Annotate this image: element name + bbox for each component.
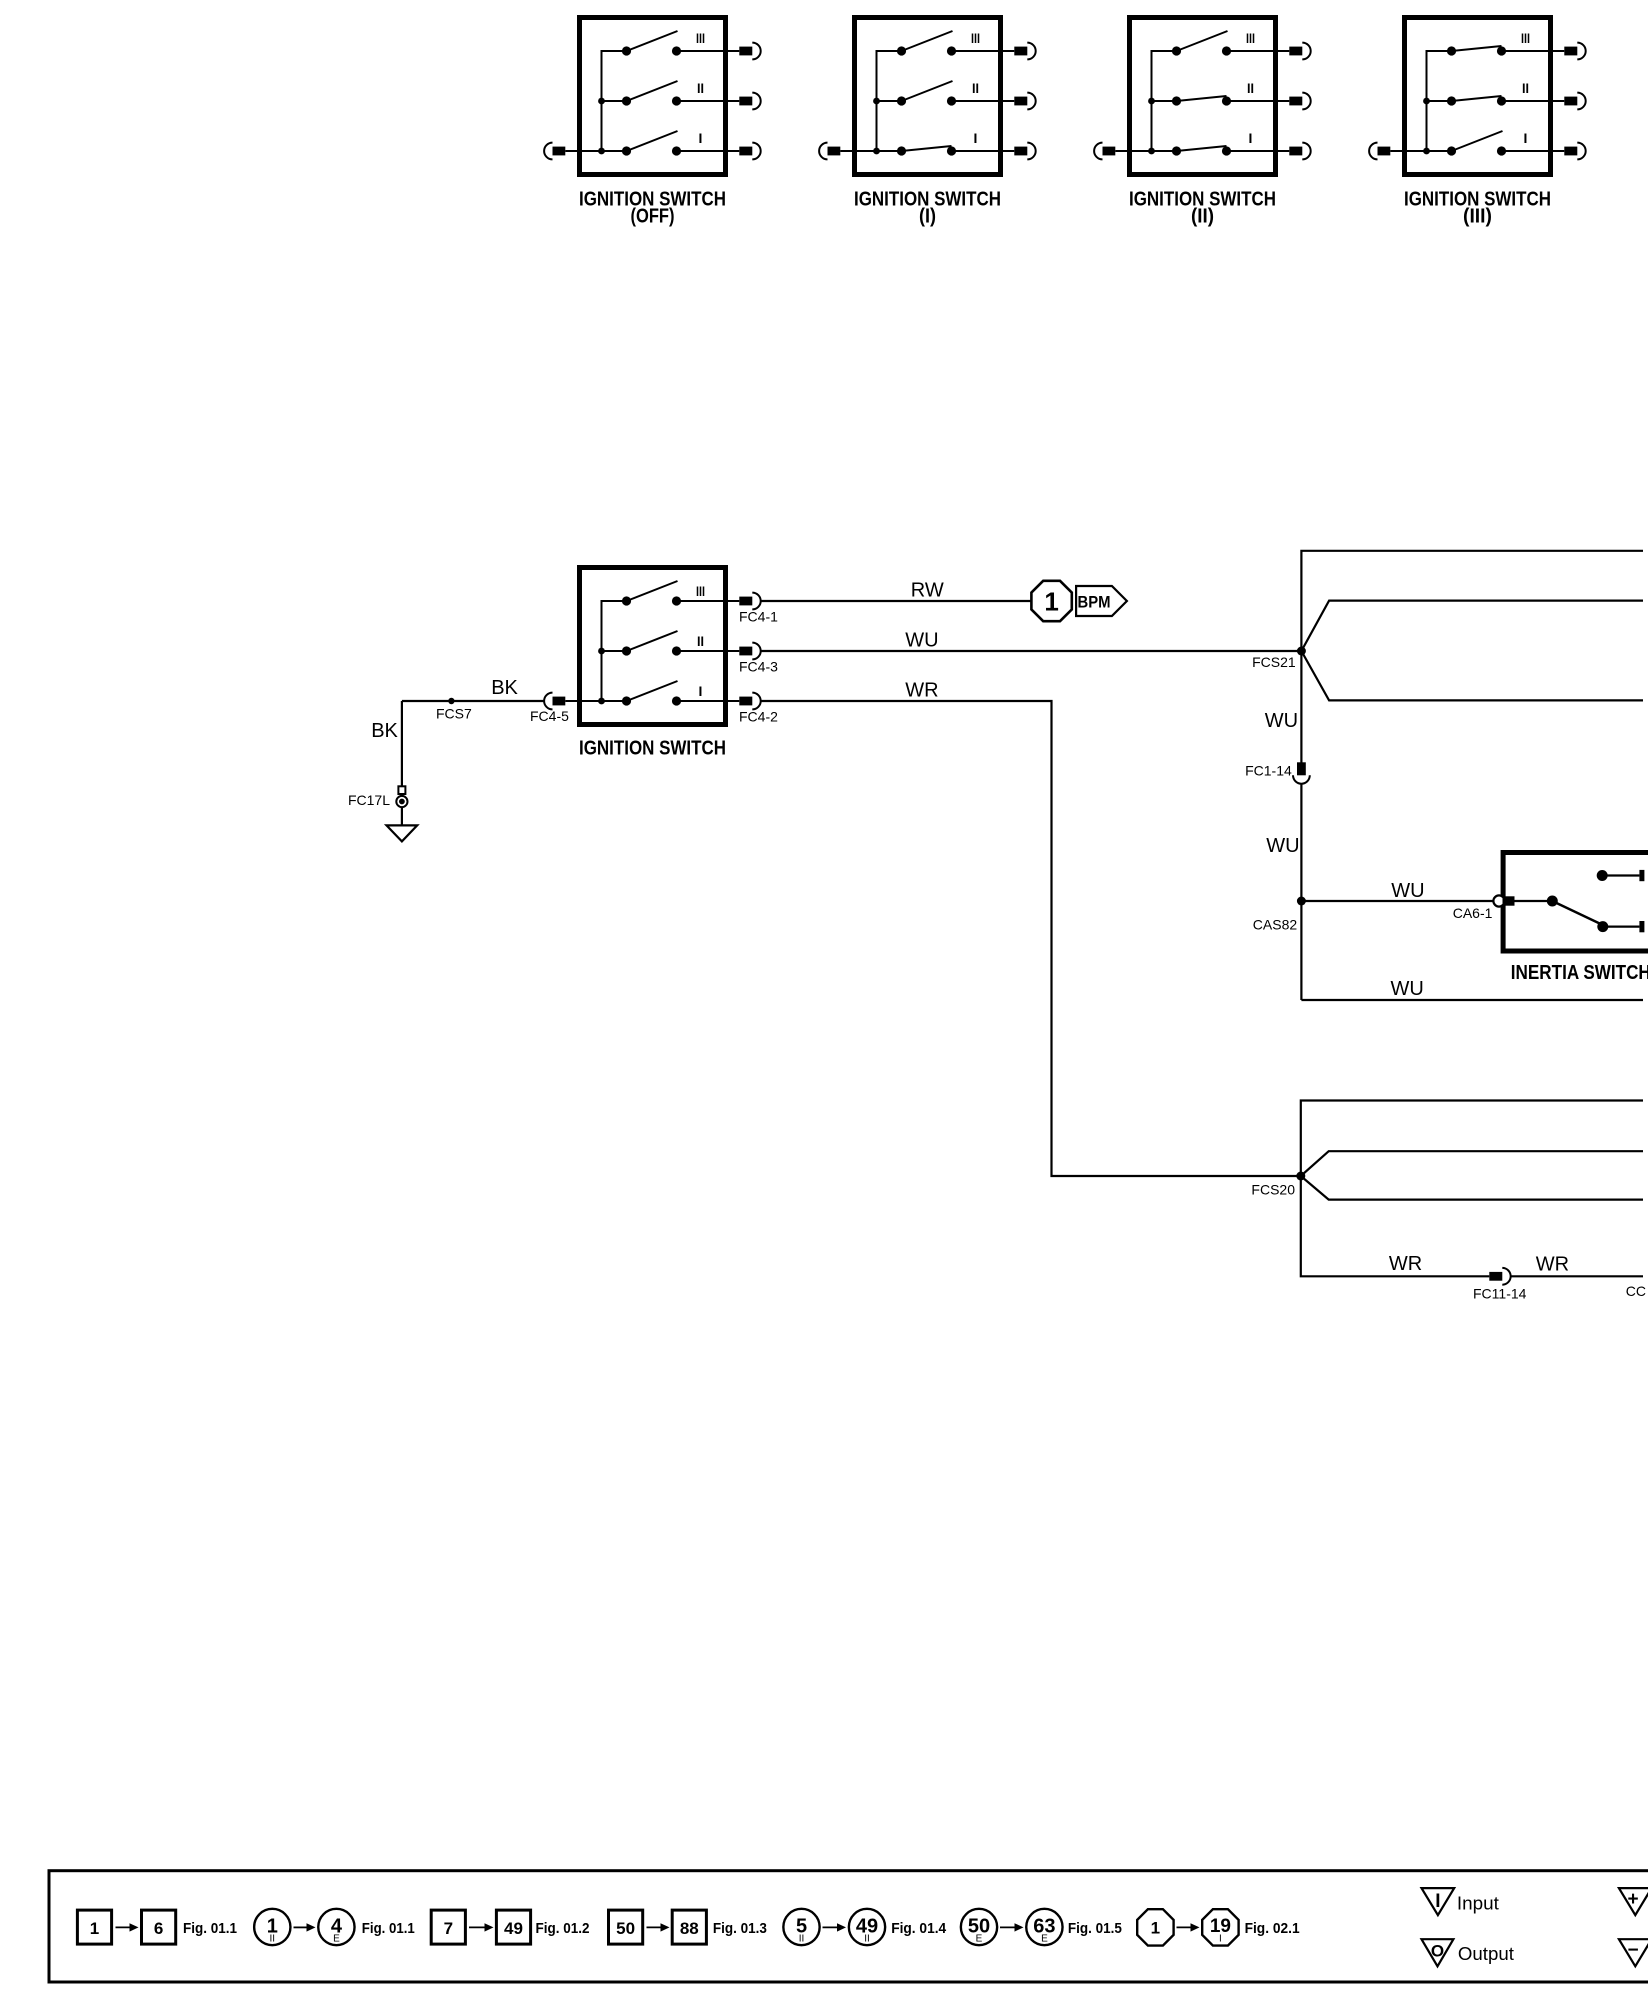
svg-text:FCS7: FCS7 [436,706,472,722]
svg-text:RW: RW [911,580,944,602]
svg-text:6: 6 [154,1919,163,1938]
svg-text:I: I [1524,130,1528,146]
svg-text:1: 1 [1151,1919,1160,1938]
svg-text:+: + [1627,1889,1638,1910]
svg-text:II: II [799,1934,805,1945]
svg-text:I: I [1435,1891,1440,1912]
svg-text:E: E [976,1934,983,1945]
svg-text:FC4-5: FC4-5 [530,708,569,724]
svg-text:FC1-14: FC1-14 [1245,763,1292,779]
svg-text:O: O [1431,1942,1444,1961]
svg-text:(II): (II) [1191,206,1214,228]
svg-text:Fig. 01.5: Fig. 01.5 [1068,1920,1122,1937]
svg-text:II: II [864,1934,870,1945]
svg-text:WR: WR [1389,1253,1422,1275]
svg-text:III: III [1246,30,1255,46]
svg-text:49: 49 [504,1919,523,1938]
svg-text:Fig. 01.4: Fig. 01.4 [891,1920,947,1937]
svg-text:FC4-3: FC4-3 [739,658,778,674]
svg-text:III: III [971,30,980,46]
svg-text:Output: Output [1458,1944,1514,1964]
svg-text:E: E [1041,1934,1048,1945]
svg-text:FC17L: FC17L [348,792,390,808]
svg-text:CAS82: CAS82 [1253,917,1298,933]
svg-text:BK: BK [371,720,398,742]
svg-text:WU: WU [1391,880,1424,902]
svg-text:I: I [1249,130,1253,146]
svg-text:Fig. 01.3: Fig. 01.3 [713,1920,767,1937]
svg-text:FC4-1: FC4-1 [739,608,778,624]
svg-text:WU: WU [905,630,938,652]
svg-text:FCS21: FCS21 [1252,654,1296,670]
svg-text:−: − [1627,1940,1638,1961]
svg-text:Fig. 02.1: Fig. 02.1 [1245,1920,1300,1937]
svg-text:WU: WU [1266,835,1299,857]
svg-text:III: III [696,583,705,599]
svg-text:I: I [974,130,978,146]
svg-text:FC11-14: FC11-14 [1473,1286,1527,1302]
svg-text:7: 7 [444,1919,453,1938]
svg-text:50: 50 [616,1919,635,1938]
svg-text:(I): (I) [919,206,936,228]
svg-text:Fig. 01.2: Fig. 01.2 [536,1920,590,1937]
svg-text:III: III [696,30,705,46]
svg-text:(OFF): (OFF) [631,206,675,228]
svg-text:WU: WU [1391,978,1424,1000]
svg-text:CC: CC [1626,1283,1646,1299]
svg-text:BPM: BPM [1078,593,1111,612]
svg-text:I: I [699,683,703,699]
svg-text:FC4-2: FC4-2 [739,708,778,724]
svg-text:BK: BK [491,677,518,699]
svg-text:88: 88 [680,1919,699,1938]
svg-text:Input: Input [1457,1894,1499,1914]
svg-text:1: 1 [1044,587,1058,617]
svg-text:II: II [1247,80,1254,96]
svg-text:FCS20: FCS20 [1251,1182,1295,1198]
svg-text:WR: WR [1536,1254,1569,1276]
svg-text:CA6-1: CA6-1 [1453,905,1493,921]
svg-text:IGNITION SWITCH: IGNITION SWITCH [579,738,726,760]
svg-text:II: II [1522,80,1529,96]
svg-text:II: II [270,1934,276,1945]
svg-text:III: III [1521,30,1530,46]
svg-text:II: II [697,80,704,96]
svg-text:INERTIA SWITCH: INERTIA SWITCH [1511,962,1648,984]
svg-text:II: II [697,633,704,649]
svg-text:Fig. 01.1: Fig. 01.1 [362,1920,415,1937]
svg-text:1: 1 [90,1919,99,1938]
svg-text:I: I [1219,1934,1222,1945]
svg-text:I: I [699,130,703,146]
svg-text:II: II [972,80,979,96]
svg-text:Fig. 01.1: Fig. 01.1 [183,1920,237,1937]
svg-text:WR: WR [905,680,938,702]
svg-text:(III): (III) [1463,206,1492,228]
svg-text:WU: WU [1265,710,1298,732]
svg-text:E: E [333,1934,340,1945]
